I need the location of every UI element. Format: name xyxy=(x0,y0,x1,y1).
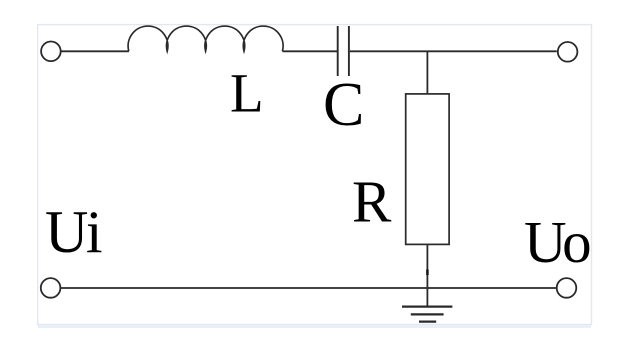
svg-text:R: R xyxy=(352,169,392,235)
wire: inductor to capacitor xyxy=(282,50,337,52)
resistor R (box) xyxy=(406,94,449,245)
wire: ground stub xyxy=(426,288,428,307)
terminal circle bottom-right (Uo -) xyxy=(557,278,577,298)
svg-text:Ui: Ui xyxy=(45,199,102,265)
wire: capacitor to right terminal (through node) xyxy=(350,50,557,52)
svg-text:Uo: Uo xyxy=(524,209,590,275)
node: junction drop wire to resistor xyxy=(426,51,428,94)
ground xyxy=(402,307,452,322)
svg-text:L: L xyxy=(230,63,264,124)
capacitor C (two plates) xyxy=(338,26,349,76)
wire: resistor bottom to bottom rail xyxy=(426,244,428,288)
svg-text:C: C xyxy=(323,71,364,139)
wire: bottom rail xyxy=(61,287,557,289)
terminal circle top-right (Uo +) xyxy=(558,42,578,62)
terminal circle bottom-left (Ui -) xyxy=(41,278,61,298)
inductor L (4 arcs) xyxy=(128,26,283,51)
terminal circle top-left (Ui +) xyxy=(41,42,61,62)
wire top-left: terminal to inductor xyxy=(61,50,129,52)
